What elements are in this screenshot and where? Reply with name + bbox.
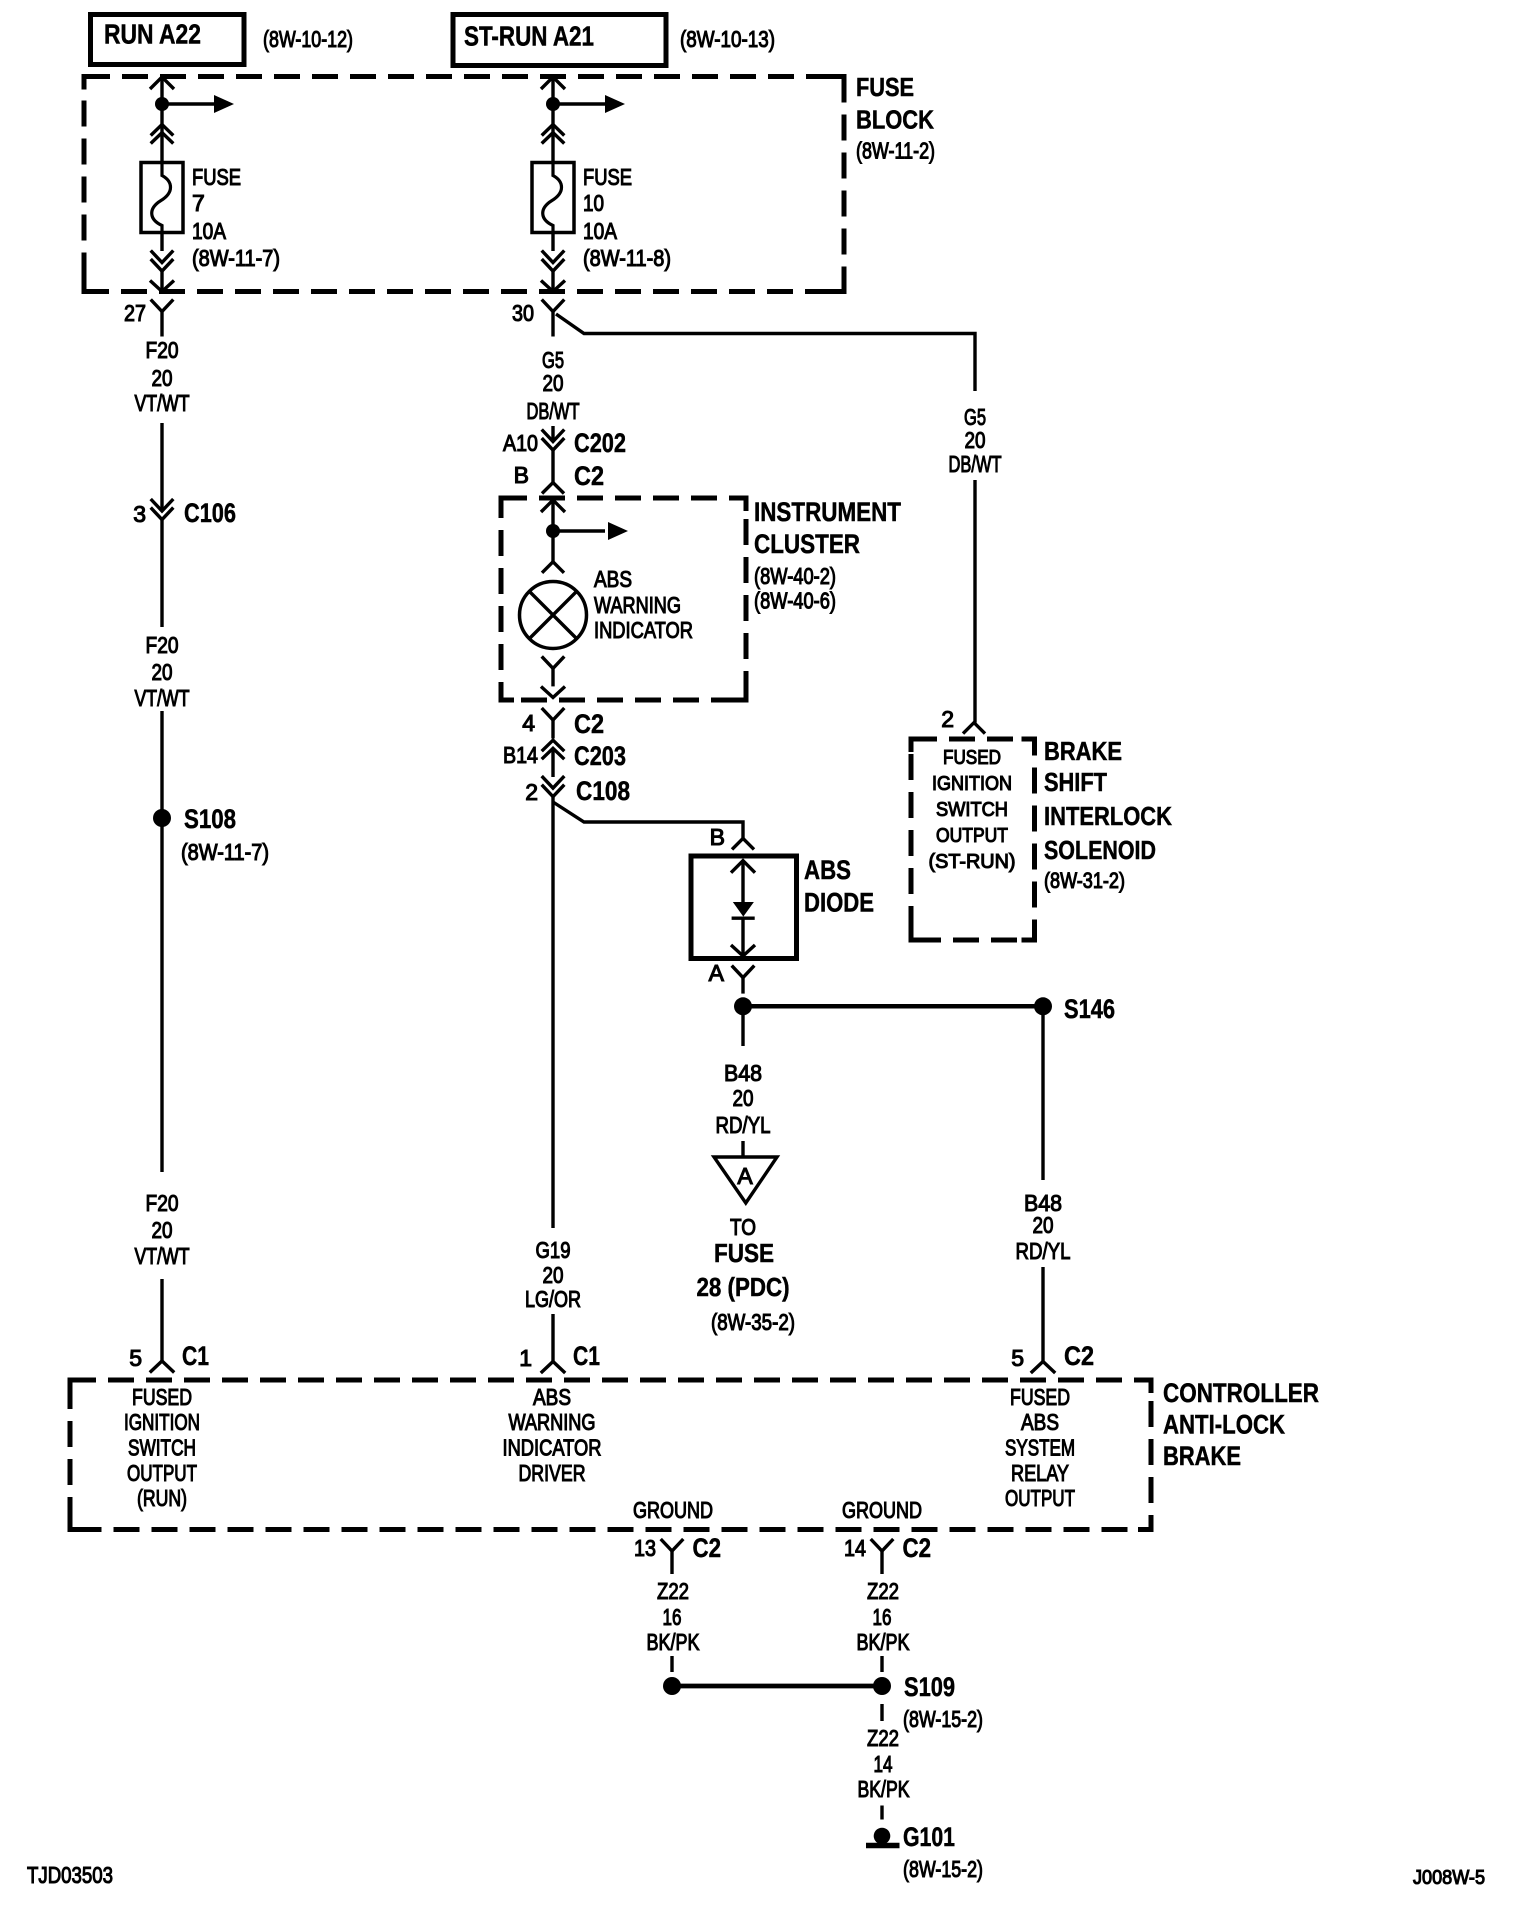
svg-text:RD/YL: RD/YL — [716, 1112, 771, 1138]
svg-text:(8W-40-2): (8W-40-2) — [754, 563, 836, 589]
svg-text:VT/WT: VT/WT — [135, 685, 190, 711]
svg-text:RELAY: RELAY — [1011, 1460, 1069, 1486]
svg-text:G19: G19 — [536, 1237, 571, 1263]
svg-text:RUN A22: RUN A22 — [104, 19, 201, 50]
svg-text:C202: C202 — [574, 428, 626, 458]
svg-text:20: 20 — [152, 659, 173, 685]
svg-text:20: 20 — [733, 1085, 754, 1111]
svg-text:5: 5 — [129, 1345, 142, 1371]
svg-text:20: 20 — [1033, 1212, 1054, 1238]
svg-text:(8W-11-8): (8W-11-8) — [583, 245, 671, 271]
svg-text:20: 20 — [152, 365, 173, 391]
svg-text:F20: F20 — [146, 632, 179, 658]
svg-text:7: 7 — [192, 190, 205, 216]
svg-text:BK/PK: BK/PK — [647, 1629, 701, 1655]
svg-text:FUSED: FUSED — [943, 747, 1001, 769]
svg-text:BLOCK: BLOCK — [856, 105, 934, 135]
svg-text:(ST-RUN): (ST-RUN) — [929, 851, 1016, 873]
svg-text:C203: C203 — [574, 741, 626, 771]
svg-text:BK/PK: BK/PK — [858, 1776, 910, 1802]
svg-text:5: 5 — [1011, 1345, 1024, 1371]
svg-text:Z22: Z22 — [657, 1578, 689, 1604]
svg-text:GROUND: GROUND — [842, 1497, 922, 1523]
svg-text:OUTPUT: OUTPUT — [127, 1460, 197, 1486]
svg-text:G101: G101 — [903, 1822, 955, 1852]
svg-text:INTERLOCK: INTERLOCK — [1044, 801, 1172, 831]
svg-text:SWITCH: SWITCH — [128, 1435, 196, 1461]
svg-text:FUSE: FUSE — [714, 1238, 774, 1268]
svg-text:B: B — [710, 824, 725, 850]
svg-text:(8W-11-2): (8W-11-2) — [856, 138, 935, 164]
svg-text:DIODE: DIODE — [804, 888, 874, 918]
svg-text:C106: C106 — [184, 498, 236, 528]
svg-text:B14: B14 — [503, 742, 538, 768]
svg-text:ANTI-LOCK: ANTI-LOCK — [1163, 1410, 1285, 1440]
svg-text:(RUN): (RUN) — [137, 1485, 187, 1511]
svg-text:S108: S108 — [184, 804, 236, 834]
svg-text:WARNING: WARNING — [509, 1409, 596, 1435]
svg-text:10A: 10A — [192, 218, 227, 244]
svg-text:SYSTEM: SYSTEM — [1005, 1435, 1075, 1461]
svg-text:C1: C1 — [573, 1341, 600, 1371]
svg-text:CONTROLLER: CONTROLLER — [1163, 1378, 1319, 1408]
svg-text:13: 13 — [634, 1535, 656, 1561]
svg-text:A: A — [737, 1163, 753, 1189]
svg-text:BK/PK: BK/PK — [857, 1629, 911, 1655]
svg-text:4: 4 — [522, 710, 535, 736]
svg-text:(8W-15-2): (8W-15-2) — [903, 1856, 983, 1882]
svg-text:LG/OR: LG/OR — [525, 1286, 581, 1312]
svg-text:C2: C2 — [574, 709, 604, 739]
svg-text:DRIVER: DRIVER — [519, 1460, 586, 1486]
svg-text:ABS: ABS — [533, 1384, 571, 1410]
svg-text:2: 2 — [525, 779, 538, 805]
svg-text:SWITCH: SWITCH — [936, 799, 1008, 821]
svg-text:A: A — [709, 960, 725, 986]
svg-text:F20: F20 — [146, 1190, 179, 1216]
svg-text:WARNING: WARNING — [594, 592, 681, 618]
svg-text:DB/WT: DB/WT — [527, 398, 580, 424]
svg-text:27: 27 — [124, 300, 146, 326]
svg-text:BRAKE: BRAKE — [1163, 1441, 1241, 1471]
svg-text:S146: S146 — [1064, 994, 1115, 1024]
svg-text:28 (PDC): 28 (PDC) — [697, 1272, 790, 1302]
svg-text:C108: C108 — [576, 776, 630, 806]
svg-text:(8W-10-13): (8W-10-13) — [680, 26, 775, 52]
svg-text:A10: A10 — [503, 430, 538, 456]
svg-text:16: 16 — [873, 1604, 892, 1630]
svg-text:2: 2 — [941, 706, 954, 732]
svg-text:INDICATOR: INDICATOR — [594, 617, 693, 643]
svg-text:(8W-10-12): (8W-10-12) — [263, 26, 353, 52]
svg-text:(8W-40-6): (8W-40-6) — [754, 588, 836, 614]
svg-text:OUTPUT: OUTPUT — [1005, 1485, 1075, 1511]
svg-text:TO: TO — [730, 1214, 756, 1240]
svg-text:ST-RUN A21: ST-RUN A21 — [464, 21, 594, 52]
svg-text:VT/WT: VT/WT — [135, 390, 190, 416]
svg-text:ABS: ABS — [804, 855, 851, 885]
svg-text:(8W-35-2): (8W-35-2) — [711, 1309, 795, 1335]
svg-text:Z22: Z22 — [867, 1578, 899, 1604]
svg-text:20: 20 — [543, 370, 564, 396]
svg-text:20: 20 — [152, 1217, 173, 1243]
svg-text:J008W-5: J008W-5 — [1413, 1867, 1485, 1889]
svg-text:CLUSTER: CLUSTER — [754, 529, 860, 559]
svg-text:B: B — [514, 462, 529, 488]
svg-text:VT/WT: VT/WT — [135, 1243, 190, 1269]
svg-text:(8W-11-7): (8W-11-7) — [181, 839, 269, 865]
svg-text:B48: B48 — [724, 1060, 762, 1086]
svg-text:SHIFT: SHIFT — [1044, 767, 1107, 797]
svg-text:OUTPUT: OUTPUT — [936, 825, 1008, 847]
svg-text:20: 20 — [543, 1262, 564, 1288]
svg-text:IGNITION: IGNITION — [124, 1409, 200, 1435]
svg-text:20: 20 — [965, 427, 986, 453]
svg-text:FUSE: FUSE — [856, 72, 914, 102]
svg-text:10A: 10A — [583, 218, 618, 244]
svg-text:C2: C2 — [903, 1533, 932, 1563]
svg-text:SOLENOID: SOLENOID — [1044, 835, 1156, 865]
svg-text:INDICATOR: INDICATOR — [503, 1435, 602, 1461]
svg-text:C2: C2 — [574, 461, 604, 491]
svg-text:(8W-11-7): (8W-11-7) — [192, 245, 280, 271]
svg-text:C2: C2 — [1064, 1341, 1094, 1371]
svg-text:F20: F20 — [146, 337, 179, 363]
svg-text:INSTRUMENT: INSTRUMENT — [754, 497, 901, 527]
svg-text:GROUND: GROUND — [633, 1497, 713, 1523]
svg-text:IGNITION: IGNITION — [932, 773, 1012, 795]
svg-text:14: 14 — [874, 1751, 893, 1777]
svg-text:3: 3 — [133, 501, 146, 527]
svg-text:BRAKE: BRAKE — [1044, 736, 1122, 766]
svg-text:(8W-31-2): (8W-31-2) — [1044, 868, 1125, 893]
svg-text:FUSED: FUSED — [1010, 1384, 1070, 1410]
svg-text:14: 14 — [844, 1535, 866, 1561]
svg-text:C2: C2 — [693, 1533, 722, 1563]
svg-text:(8W-15-2): (8W-15-2) — [903, 1706, 983, 1732]
svg-text:FUSED: FUSED — [132, 1384, 192, 1410]
svg-text:Z22: Z22 — [867, 1725, 899, 1751]
svg-text:RD/YL: RD/YL — [1016, 1238, 1071, 1264]
svg-text:1: 1 — [519, 1345, 532, 1371]
svg-text:TJD03503: TJD03503 — [27, 1862, 113, 1888]
svg-text:10: 10 — [583, 190, 604, 216]
svg-text:S109: S109 — [904, 1672, 955, 1702]
svg-text:FUSE: FUSE — [583, 164, 632, 190]
svg-text:ABS: ABS — [1021, 1409, 1059, 1435]
svg-text:16: 16 — [663, 1604, 682, 1630]
svg-text:C1: C1 — [182, 1341, 209, 1371]
svg-text:FUSE: FUSE — [192, 164, 241, 190]
svg-text:DB/WT: DB/WT — [949, 451, 1002, 477]
svg-text:ABS: ABS — [594, 566, 632, 592]
svg-text:30: 30 — [512, 300, 534, 326]
